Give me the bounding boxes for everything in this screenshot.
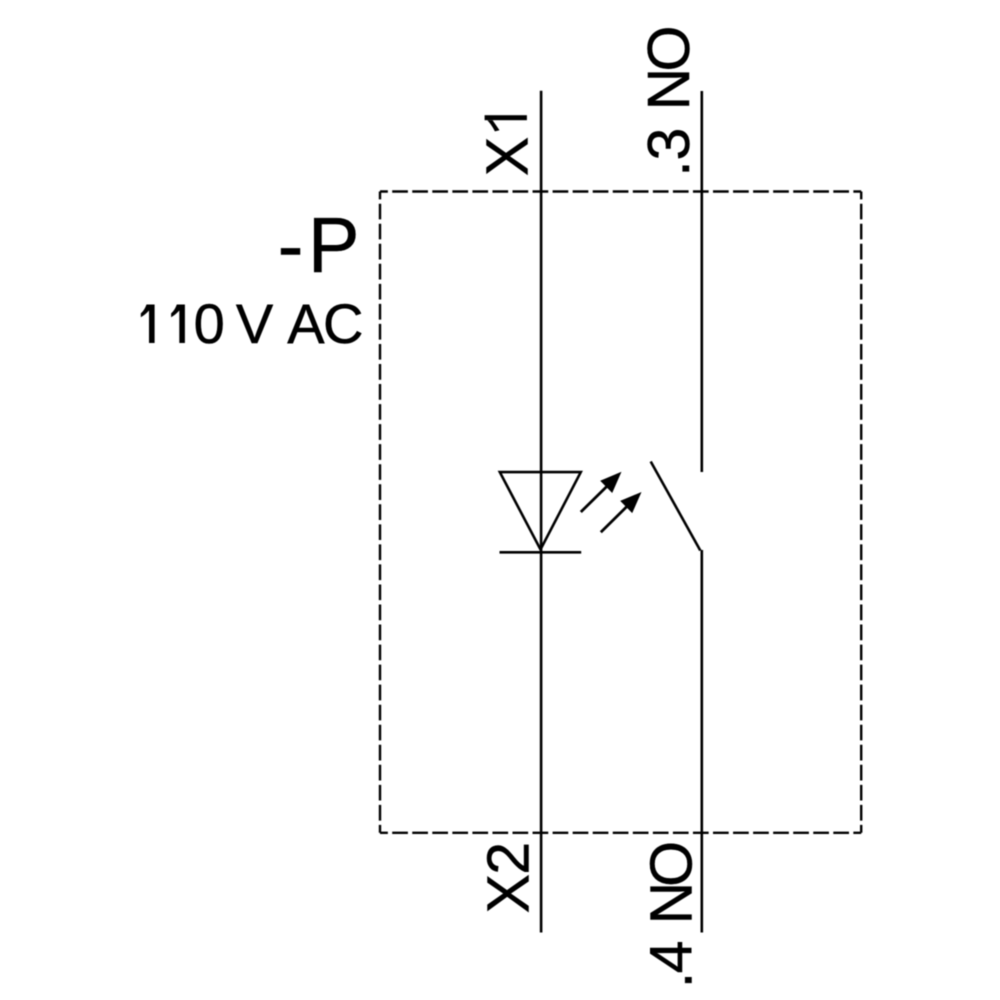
- wire: contact branch upper (.3 terminal): [700, 91, 703, 472]
- svg-text:O: O: [639, 841, 705, 887]
- svg-text:2: 2: [476, 842, 542, 875]
- component boundary (dashed enclosure): [380, 192, 861, 833]
- svg-text:X: X: [475, 137, 541, 176]
- terminal label X1 (X as text, 1 drawn): [475, 115, 541, 176]
- terminal label .3 NO: [636, 26, 702, 177]
- svg-text:-P: -P: [278, 203, 360, 289]
- wire: contact branch lower (.4 terminal): [700, 550, 703, 933]
- terminal label X2: [476, 842, 542, 913]
- svg-text:N: N: [636, 68, 702, 111]
- lamp P: cathode bar: [500, 551, 582, 554]
- light emission arrow 1: [581, 472, 622, 512]
- terminal label .4 NO: [639, 841, 705, 988]
- svg-text:V: V: [236, 292, 274, 355]
- lamp P: LED triangle (anode): [500, 472, 581, 549]
- svg-text:.: .: [636, 160, 702, 176]
- svg-text:X: X: [476, 874, 542, 913]
- svg-text:N: N: [639, 882, 705, 925]
- svg-text:3: 3: [636, 128, 702, 161]
- switch contact NO (moving blade): [651, 462, 701, 551]
- svg-text:O: O: [636, 26, 702, 72]
- wire: lamp branch vertical (X1 to X2): [540, 91, 543, 933]
- svg-text:AC: AC: [287, 292, 362, 355]
- svg-text:0: 0: [194, 292, 225, 355]
- value label 110 V AC: [141, 292, 362, 355]
- light emission arrow 2: [601, 492, 642, 532]
- svg-text:4: 4: [639, 941, 705, 974]
